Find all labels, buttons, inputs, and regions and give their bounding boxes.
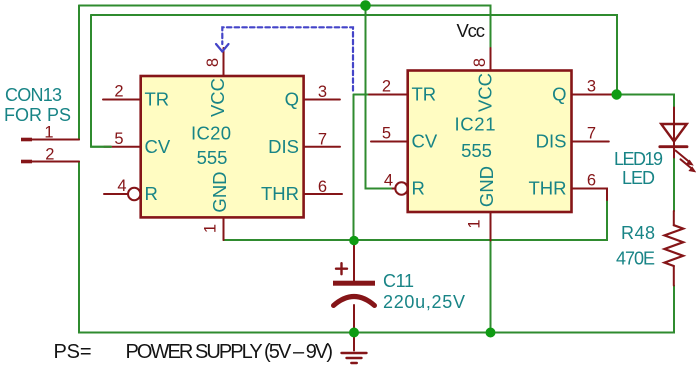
IC21 pin 6 THR <box>572 189 608 201</box>
connector CON13 pin 2 marker <box>21 160 32 164</box>
wire Q3 of IC21 to LED top <box>617 95 674 108</box>
svg-text:8: 8 <box>471 58 489 67</box>
svg-text:VCC: VCC <box>207 78 228 117</box>
svg-text:GND: GND <box>476 166 497 207</box>
svg-text:FOR PS: FOR PS <box>4 105 71 125</box>
svg-text:VCC: VCC <box>475 73 496 112</box>
svg-text:R: R <box>412 178 425 199</box>
capacitor C11 bottom curved plate <box>334 297 375 306</box>
IC21 pin 3 Q <box>572 94 614 96</box>
IC20 pin 4 R with inversion bubble <box>104 193 128 195</box>
connector CON13 pin 1 lead <box>32 139 80 141</box>
IC20 pin 2 TR <box>103 99 141 101</box>
svg-text:POWER SUPPLY (5V – 9V): POWER SUPPLY (5V – 9V) <box>126 341 334 363</box>
svg-text:LED19: LED19 <box>614 149 663 169</box>
LED LED19 triangle <box>661 124 687 142</box>
IC21 pin 5 CV <box>371 141 408 143</box>
svg-text:470E: 470E <box>616 249 655 269</box>
wire TR2 horizontal of IC21 <box>354 94 371 96</box>
IC20 pin 8 VCC <box>223 48 225 76</box>
svg-text:DIS: DIS <box>268 136 299 157</box>
svg-text:1: 1 <box>44 124 53 142</box>
connector CON13 pin 2 lead <box>32 161 80 163</box>
wire overlay green on R4 pin <box>366 188 392 190</box>
svg-text:6: 6 <box>587 172 596 190</box>
svg-text:5: 5 <box>114 130 123 148</box>
IC20 pin 3 Q <box>304 99 340 101</box>
IC20 pin 6 THR <box>304 193 342 195</box>
svg-text:5: 5 <box>382 125 391 143</box>
dashed blue arrowhead <box>216 44 222 52</box>
svg-text:Q: Q <box>552 84 566 105</box>
svg-text:555: 555 <box>461 140 492 161</box>
svg-text:PS=: PS= <box>54 341 92 363</box>
svg-text:7: 7 <box>587 125 596 143</box>
IC21 pin 4 R with inversion bubble <box>378 188 395 190</box>
svg-text:3: 3 <box>587 78 596 96</box>
svg-text:THR: THR <box>528 178 566 199</box>
junction dot Q3 of IC21 <box>611 89 621 99</box>
ground symbol <box>353 333 355 351</box>
svg-text:1: 1 <box>202 224 220 233</box>
svg-text:CON13: CON13 <box>5 85 62 105</box>
dashed blue note line to IC20 pin 8 <box>222 27 353 90</box>
svg-text:2: 2 <box>114 83 123 101</box>
svg-text:CV: CV <box>412 131 438 152</box>
IC20 pin 5 CV <box>104 146 141 148</box>
wire left vertical to IC20 CV <box>91 15 111 147</box>
svg-text:R48: R48 <box>621 223 655 243</box>
svg-text:IC21: IC21 <box>455 114 496 135</box>
svg-text:3: 3 <box>318 83 327 101</box>
wire second bus (Q output bus) <box>91 15 617 95</box>
wire resistor R48 bottom to bottom bus <box>79 162 674 333</box>
op-amp U2: IC21 555 body <box>408 71 572 213</box>
IC21 pin 1 GND <box>490 212 492 241</box>
svg-text:LED: LED <box>622 168 655 188</box>
wire LED cathode to resistor R48 <box>673 158 675 212</box>
svg-text:6: 6 <box>318 178 327 196</box>
junction dot C11 bottom node <box>349 328 359 338</box>
svg-text:C11: C11 <box>383 271 414 291</box>
svg-text:DIS: DIS <box>536 131 567 152</box>
wire Vcc bus top (net 1) <box>79 6 491 49</box>
svg-text:555: 555 <box>197 147 228 168</box>
svg-text:4: 4 <box>384 172 393 190</box>
svg-text:TR: TR <box>145 89 170 110</box>
svg-text:4: 4 <box>117 177 126 195</box>
svg-text:IC20: IC20 <box>191 123 231 144</box>
IC20 pin 1 GND <box>223 218 225 241</box>
junction dot IC21 GND at bottom bus <box>486 328 496 338</box>
resistor R48 zigzag <box>665 225 684 266</box>
LED LED19 cathode bar <box>660 145 687 148</box>
capacitor C11 plus sign <box>336 268 347 270</box>
capacitor C11 bottom lead <box>353 305 355 333</box>
svg-text:Q: Q <box>285 89 299 110</box>
wire left vertical from Vcc bus to CON13 pin1 <box>78 6 80 140</box>
wire vertical TR2/R4 net of IC21 from top bus <box>366 6 392 189</box>
IC20 pin 7 DIS <box>304 146 340 148</box>
svg-text:1: 1 <box>466 219 484 228</box>
svg-text:CV: CV <box>145 136 171 157</box>
wire overlay green on CV pin <box>91 146 111 148</box>
svg-text:8: 8 <box>204 58 222 67</box>
wire vertical from TR2 row down to C11 node <box>353 95 355 241</box>
resistor R48 top lead <box>673 211 675 225</box>
LED LED19 emission arrow 1 <box>676 151 691 163</box>
svg-text:GND: GND <box>209 171 230 212</box>
wire IC21 GND pin down to bottom bus <box>490 240 492 333</box>
LED LED19 top lead <box>673 108 675 147</box>
resistor R48 bottom lead <box>673 266 675 286</box>
svg-text:2: 2 <box>45 146 54 164</box>
IC21 pin 8 VCC <box>490 48 492 71</box>
svg-text:2: 2 <box>382 78 391 96</box>
IC21 pin 2 TR <box>369 94 408 96</box>
capacitor C11 top plate <box>333 281 375 286</box>
LED LED19 emission arrow 2 <box>681 159 693 169</box>
capacitor C11 top lead <box>353 241 355 281</box>
IC21 pin 7 DIS <box>572 141 609 143</box>
LED LED19 bottom lead <box>673 147 675 158</box>
op-amp U1: IC20 555 body <box>141 76 304 217</box>
wire GND row from IC20 pin1 to THR6 of IC21 <box>224 199 608 240</box>
junction dot top bus <box>360 0 371 11</box>
svg-text:7: 7 <box>318 131 327 149</box>
svg-text:220u,25V: 220u,25V <box>383 292 465 312</box>
junction dot C11 top node <box>349 236 359 246</box>
svg-text:Vcc: Vcc <box>457 20 486 41</box>
connector CON13 pin 1 marker <box>21 138 32 142</box>
svg-text:THR: THR <box>261 183 299 204</box>
svg-text:R: R <box>145 183 158 204</box>
svg-text:TR: TR <box>412 84 437 105</box>
